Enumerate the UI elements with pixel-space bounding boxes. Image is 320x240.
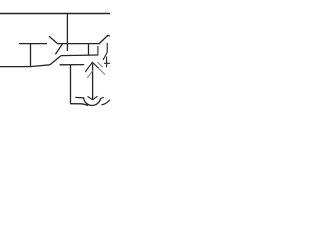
switch S1 blade: [49, 36, 57, 43]
cup rim tick right: [101, 97, 104, 100]
wire vertical left: [30, 44, 32, 67]
wire bottom left rail: [0, 65, 50, 67]
capacitor plate vertical: [88, 44, 90, 56]
wire middle bottom: [60, 64, 85, 66]
wire vertical drop from top rail: [66, 14, 68, 52]
arc fragment corner: [102, 100, 111, 105]
diagonal streak left: [87, 70, 93, 78]
wire top rail: [0, 13, 110, 15]
plate fragment right edge: [106, 57, 108, 68]
arrowhead top chevron: [85, 62, 99, 72]
bar fragment right edge: [106, 43, 108, 52]
wire lower middle horizontal: [61, 54, 98, 57]
wire stub right edge: [104, 62, 110, 64]
wire diagonal riser: [50, 56, 61, 65]
wire L vertical: [70, 65, 72, 104]
switch S2 blade: [100, 36, 111, 44]
arrowhead bottom chevron: [88, 96, 98, 100]
wire middle horizontal: [57, 43, 100, 45]
diagonal streak lower right: [99, 68, 105, 74]
diagonal fragment right edge: [103, 52, 107, 60]
wire left middle: [19, 43, 47, 45]
wire L horizontal: [70, 104, 88, 106]
dish cup arc: [75, 97, 100, 105]
switch S3 blade: [55, 44, 62, 54]
diagonal streak upper right: [97, 62, 103, 67]
contact post right: [97, 46, 99, 54]
arrow shaft: [92, 64, 94, 100]
